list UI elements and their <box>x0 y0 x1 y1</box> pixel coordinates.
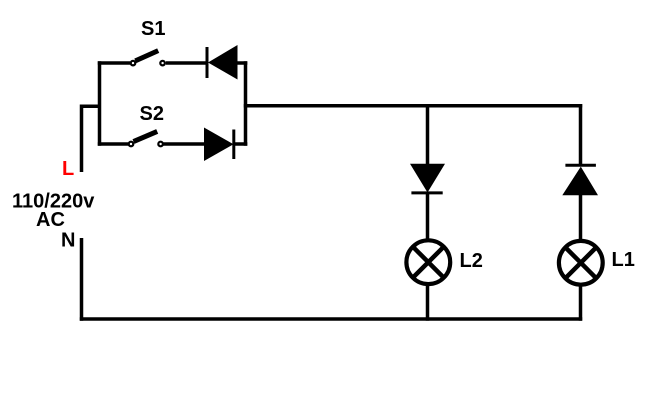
wire L2 branch upper <box>426 104 430 165</box>
wire S2 branch mid segment <box>164 142 206 146</box>
wire S2 branch right segment <box>233 142 248 146</box>
wire L lead vertical <box>80 105 84 173</box>
wire S2 branch left segment <box>98 142 128 146</box>
svg-text:N: N <box>61 230 75 252</box>
wire S1 branch left segment <box>98 61 130 65</box>
wire L1 branch upper <box>579 104 583 166</box>
wire L1 branch mid <box>579 195 583 241</box>
wire left bus vertical <box>98 61 102 146</box>
diode D2 (cathode right) <box>204 128 234 162</box>
svg-text:L2: L2 <box>460 250 483 272</box>
wire right bus vertical <box>244 61 248 146</box>
diode D1 (cathode left) <box>207 45 238 80</box>
svg-text:S2: S2 <box>140 103 164 125</box>
lamp L2 <box>406 240 450 284</box>
lamp L1 <box>559 241 603 285</box>
svg-text:AC: AC <box>36 209 65 231</box>
svg-text:L: L <box>62 158 74 180</box>
wire main top horizontal <box>244 104 582 108</box>
wire S1 branch mid segment <box>166 61 208 65</box>
svg-text:S1: S1 <box>141 18 165 40</box>
wire S1 branch right segment <box>237 61 248 65</box>
switch S1 <box>131 51 165 66</box>
diode D4 (pointing up) <box>562 165 598 195</box>
svg-text:L1: L1 <box>612 249 635 271</box>
wire N lead vertical <box>80 238 84 321</box>
wire L2 branch lower <box>426 285 430 321</box>
wire L1 branch lower <box>579 285 583 321</box>
wire L2 branch mid <box>426 193 430 241</box>
wire stub to L lead <box>80 105 101 109</box>
diode D3 (pointing down) <box>410 164 445 193</box>
switch S2 <box>129 131 163 146</box>
wire bottom return <box>80 317 582 321</box>
